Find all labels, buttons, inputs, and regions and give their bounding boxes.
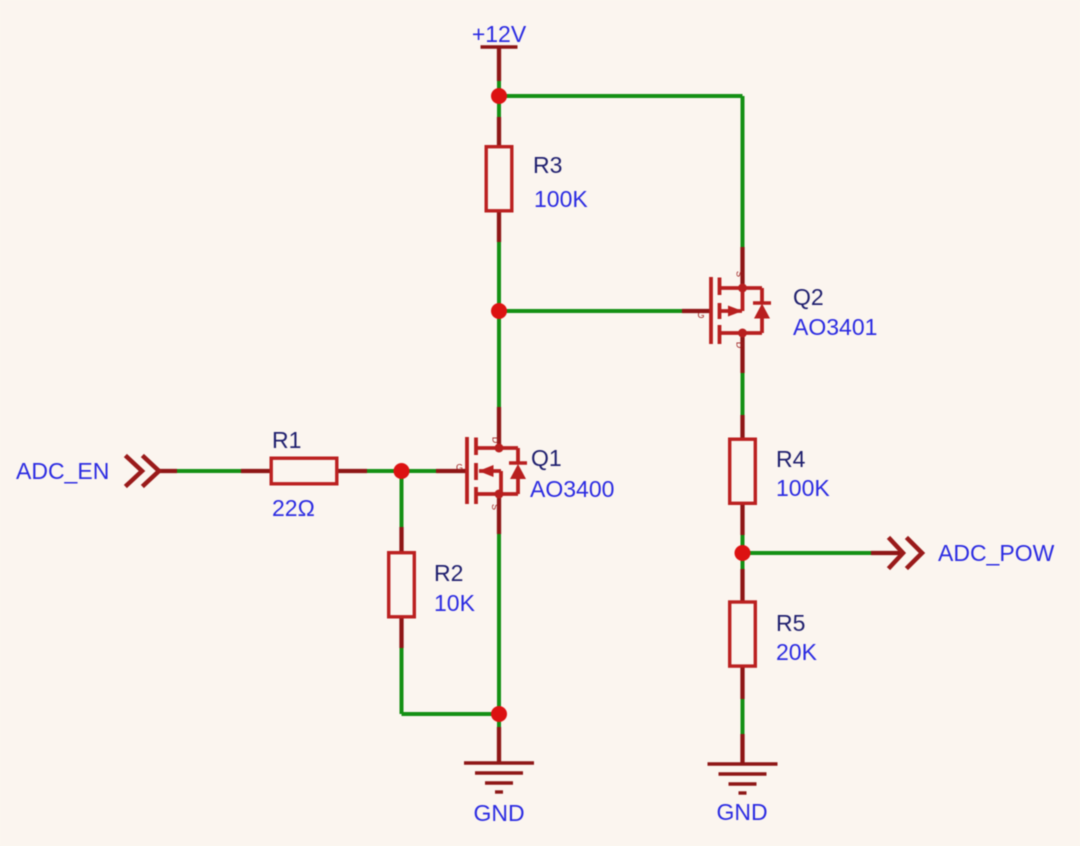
svg-text:R2: R2 [434,560,463,586]
svg-text:20K: 20K [776,639,818,665]
svg-text:10K: 10K [434,590,476,616]
svg-text:100K: 100K [534,186,588,212]
svg-text:Q1: Q1 [531,445,562,471]
svg-text:+12V: +12V [472,21,527,47]
svg-text:Q2: Q2 [793,284,824,310]
svg-text:100K: 100K [776,475,830,501]
svg-text:R5: R5 [776,610,805,636]
svg-text:G: G [697,310,704,320]
svg-text:ADC_EN: ADC_EN [16,458,109,484]
svg-text:D: D [491,437,501,444]
svg-text:R1: R1 [272,427,301,453]
svg-text:S: S [735,271,745,277]
svg-text:ADC_POW: ADC_POW [938,540,1055,566]
svg-text:R3: R3 [533,152,562,178]
svg-text:G: G [456,463,463,473]
svg-text:AO3401: AO3401 [793,314,877,340]
svg-text:D: D [735,342,745,349]
svg-text:GND: GND [473,800,524,826]
svg-text:22Ω: 22Ω [272,495,315,521]
svg-text:S: S [490,504,500,510]
svg-text:AO3400: AO3400 [530,476,614,502]
svg-text:R4: R4 [776,446,806,472]
svg-text:GND: GND [716,799,767,825]
